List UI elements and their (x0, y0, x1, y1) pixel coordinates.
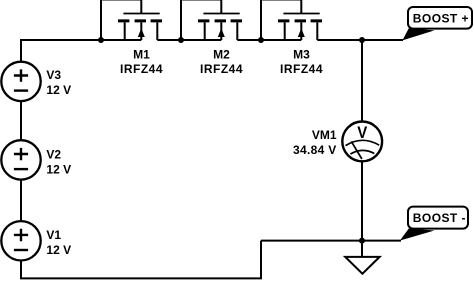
svg-text:V2: V2 (46, 148, 61, 162)
source V2 (1, 140, 40, 179)
transistor M1 (101, 0, 162, 40)
svg-text:M1: M1 (133, 47, 150, 61)
svg-text:BOOST -: BOOST - (413, 211, 466, 225)
node D junction dot (359, 37, 365, 43)
flag BOOST + box (408, 7, 472, 29)
svg-text:IRFZ44: IRFZ44 (200, 62, 243, 76)
flag BOOST - box (408, 207, 468, 229)
voltmeter VM1 (342, 121, 382, 161)
ground (345, 257, 379, 274)
svg-text:V1: V1 (46, 228, 61, 242)
wire VM1 bottom to ground node (361, 161, 363, 240)
transistor M2 (181, 0, 242, 40)
transistor M3 (261, 0, 322, 40)
svg-text:V: V (357, 124, 367, 142)
ground node junction dot (359, 238, 365, 244)
wire V3 to V2 (20, 101, 22, 140)
svg-text:IRFZ44: IRFZ44 (280, 62, 323, 76)
flag BOOST - tail (400, 229, 435, 241)
wire V1 bottom along page bottom and up to ground rail (21, 241, 261, 279)
svg-text:M2: M2 (213, 47, 230, 61)
svg-text:M3: M3 (293, 47, 310, 61)
svg-text:V3: V3 (46, 68, 61, 82)
svg-text:VM1: VM1 (312, 128, 337, 142)
svg-text:IRFZ44: IRFZ44 (120, 62, 163, 76)
source V3 (1, 62, 40, 101)
wire V2 to V1 (20, 180, 22, 221)
svg-text:12 V: 12 V (46, 83, 71, 97)
svg-text:12 V: 12 V (46, 163, 71, 177)
wire M1 drain to node B (157, 39, 181, 41)
wire M3 drain to BOOST + tail (317, 39, 403, 41)
svg-text:12 V: 12 V (46, 243, 71, 257)
wire node D down to VM1 (361, 40, 363, 121)
wire M2 drain to node C (237, 39, 261, 41)
wire ground rail to BOOST - tail (261, 240, 401, 242)
ground stub wire (361, 241, 363, 257)
svg-text:34.84 V: 34.84 V (293, 143, 336, 157)
svg-text:BOOST +: BOOST + (413, 12, 469, 26)
node C junction dot (258, 37, 264, 43)
node B junction dot (178, 37, 184, 43)
node A junction dot (98, 37, 104, 43)
flag BOOST + tail (402, 28, 434, 40)
wire from V3 top up to node A (21, 40, 101, 62)
source V1 (1, 221, 40, 260)
